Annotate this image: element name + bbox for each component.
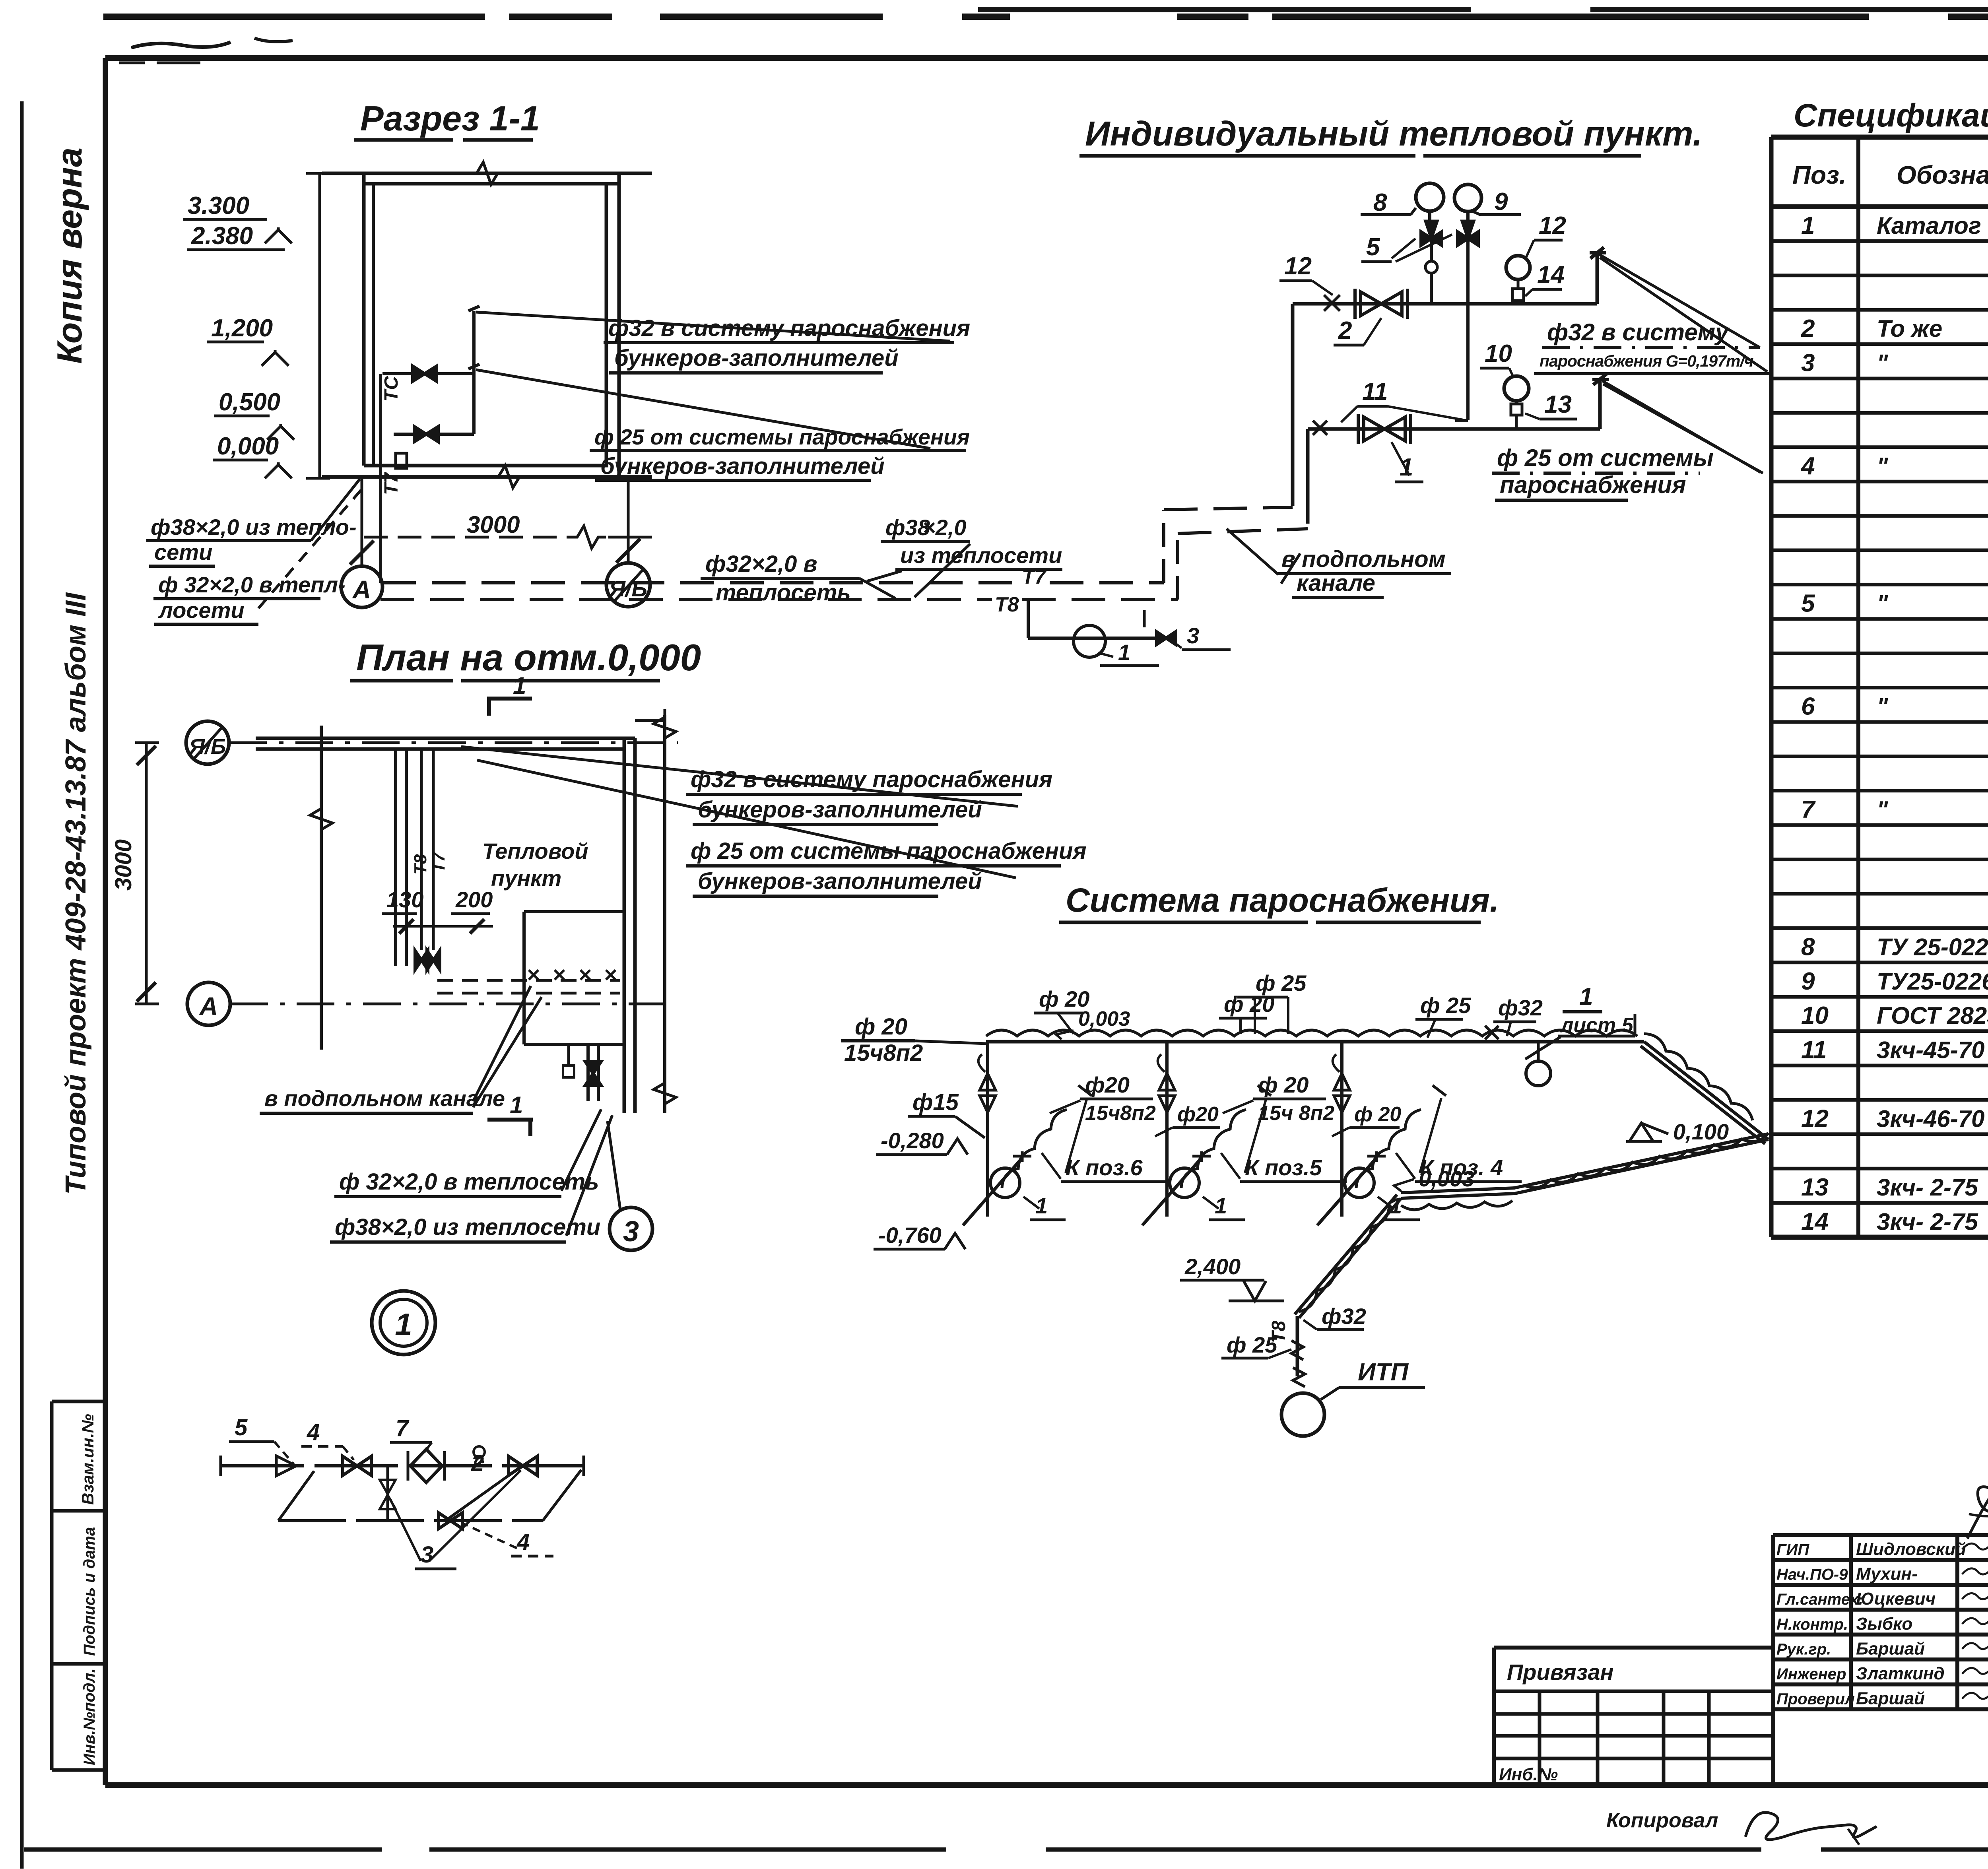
svg-text:Система пароснабжения.: Система пароснабжения. [1066,881,1499,919]
svg-text:Т8: Т8 [995,593,1019,616]
svg-text:2.380: 2.380 [191,222,253,250]
svg-text:К поз.6: К поз.6 [1066,1155,1143,1180]
svg-text:1,200: 1,200 [211,314,273,342]
svg-text:5: 5 [1366,233,1380,261]
svg-text:Проверил: Проверил [1776,1690,1855,1708]
svg-text:бункеров-заполнителей: бункеров-заполнителей [614,345,899,371]
svg-text:лосети: лосети [158,598,245,623]
svg-text:Подпись и дата: Подпись и дата [81,1527,98,1656]
svg-text:ТУ25-0226-74: ТУ25-0226-74 [1877,968,1988,995]
svg-text:Поз.: Поз. [1792,161,1846,189]
svg-text:5: 5 [1801,590,1815,617]
svg-text:3: 3 [1801,349,1815,377]
svg-text:бункеров-заполнителей: бункеров-заполнителей [698,868,982,894]
svg-text:А: А [199,992,218,1021]
svg-text:×2,0: ×2,0 [922,515,967,540]
svg-text:Инв.№подл.: Инв.№подл. [81,1668,98,1765]
svg-text:ф 20: ф 20 [1224,992,1274,1017]
svg-text:бункеров-заполнителей: бункеров-заполнителей [698,797,982,823]
svg-text:Т7: Т7 [1022,565,1047,588]
svg-text:сети: сети [154,540,212,565]
svg-text:Я/Б: Я/Б [608,576,647,601]
svg-text:0,000: 0,000 [217,433,279,460]
svg-text:Гл.сантех.: Гл.сантех. [1776,1591,1863,1608]
svg-text:1: 1 [1579,983,1593,1011]
svg-text:ф32: ф32 [1498,995,1543,1020]
svg-text:Привязан: Привязан [1507,1659,1613,1685]
svg-text:3кч- 2-75: 3кч- 2-75 [1877,1174,1978,1201]
svg-text:Златкинд: Златкинд [1856,1664,1945,1683]
svg-text:Баршай: Баршай [1856,1639,1925,1658]
svg-text:0,100: 0,100 [1673,1119,1729,1144]
svg-text:ф38×2,0 из теплосети: ф38×2,0 из теплосети [335,1214,600,1240]
svg-text:ТС: ТС [381,376,402,402]
svg-text:ИТП: ИТП [1358,1359,1409,1386]
svg-text:пароснабжения: пароснабжения [1500,472,1686,498]
svg-text:13: 13 [1544,391,1572,418]
svg-text:ф 25: ф 25 [1420,993,1471,1018]
svg-text:ф 25 от системы пароснабжения: ф 25 от системы пароснабжения [594,425,970,449]
svg-text:Инженер: Инженер [1776,1665,1846,1683]
svg-text:6: 6 [1801,693,1815,720]
svg-text:Разрез 1-1: Разрез 1-1 [360,99,540,138]
svg-text:3000: 3000 [467,511,520,538]
svg-text:2: 2 [1338,317,1352,344]
svg-text:15ч 8п2: 15ч 8п2 [1258,1102,1334,1125]
svg-text:1: 1 [513,672,526,699]
svg-text:12: 12 [1801,1105,1829,1132]
svg-text:14: 14 [1537,261,1565,289]
svg-text:ф32: ф32 [1322,1304,1366,1329]
svg-text:0,003: 0,003 [1078,1007,1130,1031]
svg-text:Т7: Т7 [429,851,448,873]
svg-text:ГОСТ 2823-73*Е: ГОСТ 2823-73*Е [1877,1002,1988,1029]
svg-text:Рук.гр.: Рук.гр. [1776,1640,1831,1658]
svg-text:ф32×2,0 в: ф32×2,0 в [705,551,817,577]
svg-text:ф 20: ф 20 [855,1014,907,1040]
svg-text:ф38×2,0 из тепло-: ф38×2,0 из тепло- [151,514,357,540]
svg-text:-0,280: -0,280 [881,1128,944,1153]
svg-text:4: 4 [307,1419,320,1445]
svg-text:130: 130 [386,887,423,912]
svg-text:15ч8п2: 15ч8п2 [1085,1102,1156,1125]
svg-text:12: 12 [1539,212,1566,239]
svg-text:ТУ 25-0226-74: ТУ 25-0226-74 [1877,934,1988,960]
svg-text:": " [1877,453,1889,479]
svg-text:1: 1 [395,1307,412,1342]
svg-text:11: 11 [1801,1036,1827,1064]
svg-text:10: 10 [1485,340,1512,367]
svg-text:ф32 в систему: ф32 в систему [1547,319,1730,345]
svg-text:пункт: пункт [491,866,561,891]
svg-text:14: 14 [1801,1208,1829,1236]
svg-text:": " [1877,693,1889,720]
svg-text:в подпольном канале: в подпольном канале [264,1086,505,1111]
svg-text:Т7: Т7 [381,472,402,495]
svg-text:2: 2 [1801,315,1815,342]
svg-text:Копировал: Копировал [1606,1809,1718,1832]
svg-text:Копия верна: Копия верна [50,148,89,364]
svg-text:": " [1877,590,1889,617]
svg-text:Индивидуальный тепловой пункт.: Индивидуальный тепловой пункт. [1085,115,1703,153]
svg-text:Типовой проект 409-28-43.13.: Типовой проект 409-28-43.13.87 альбом II… [60,592,92,1195]
svg-text:3кч-45-70: 3кч-45-70 [1877,1037,1984,1064]
svg-text:пароснабжения G=0,197т/ч: пароснабжения G=0,197т/ч [1540,352,1754,370]
svg-text:3.300: 3.300 [188,192,249,219]
svg-text:Спецификация: Спецификация [1794,97,1988,134]
svg-text:7: 7 [396,1415,410,1441]
svg-text:Я/Б: Я/Б [188,735,226,759]
svg-text:ф 25 от системы пароснабжения: ф 25 от системы пароснабжения [691,838,1087,864]
svg-text:Обозначение: Обозначение [1897,161,1988,189]
svg-text:0,003: 0,003 [1419,1166,1474,1191]
svg-text:лист 5: лист 5 [1559,1014,1634,1037]
svg-text:200: 200 [455,887,493,912]
svg-text:Мухин-: Мухин- [1856,1564,1918,1584]
svg-text:1: 1 [1118,640,1130,665]
svg-text:8: 8 [1373,189,1387,216]
svg-text:4: 4 [516,1529,530,1555]
svg-text:ф32 в систему пароснабжения: ф32 в систему пароснабжения [691,767,1052,792]
svg-text:ф 32×2,0 в теплосеть: ф 32×2,0 в теплосеть [339,1169,599,1195]
svg-text:3: 3 [421,1542,433,1568]
svg-text:3: 3 [1187,623,1199,648]
svg-text:3кч-46-70: 3кч-46-70 [1877,1105,1984,1132]
svg-text:ф20: ф20 [1085,1072,1130,1097]
svg-text:Инб.№: Инб.№ [1499,1765,1558,1784]
svg-text:3: 3 [623,1216,639,1248]
svg-text:5: 5 [235,1415,248,1440]
svg-text:ф 32×2,0 в тепл-: ф 32×2,0 в тепл- [158,572,346,597]
svg-text:7: 7 [1801,796,1816,823]
svg-text:ф 20: ф 20 [1258,1072,1309,1097]
svg-text:3000: 3000 [111,839,136,891]
svg-text:11: 11 [1362,378,1388,406]
svg-text:ф 20: ф 20 [1354,1103,1401,1126]
svg-text:Зыбко: Зыбко [1856,1614,1912,1634]
svg-text:2,400: 2,400 [1184,1254,1241,1279]
svg-text:Шидловский: Шидловский [1856,1539,1966,1559]
svg-text:15ч8п2: 15ч8п2 [844,1040,923,1066]
svg-text:Каталог ЦКБА: Каталог ЦКБА [1877,212,1988,239]
svg-text:3кч- 2-75: 3кч- 2-75 [1877,1209,1978,1235]
svg-text:ф 25 от системы: ф 25 от системы [1497,444,1714,471]
svg-text:13: 13 [1801,1174,1829,1201]
svg-text:из теплосети: из теплосети [900,543,1062,568]
svg-text:Т8: Т8 [411,854,430,875]
svg-text:": " [1877,350,1889,377]
svg-text:": " [1877,796,1889,823]
svg-text:в подпольном: в подпольном [1281,546,1446,572]
svg-text:Баршай: Баршай [1856,1689,1925,1708]
svg-text:9: 9 [1801,968,1815,995]
svg-text:Т8: Т8 [1268,1321,1289,1343]
svg-text:-0,760: -0,760 [878,1223,942,1248]
svg-text:А: А [352,575,371,604]
svg-text:План на отм.0,000: План на отм.0,000 [356,637,701,678]
svg-text:ф32 в систему пароснабжения: ф32 в систему пароснабжения [608,315,970,341]
svg-text:Тепловой: Тепловой [482,838,588,864]
svg-text:ГИП: ГИП [1776,1541,1809,1558]
svg-text:Н.контр.: Н.контр. [1776,1616,1848,1633]
svg-text:1: 1 [510,1092,523,1118]
svg-text:Нач.ПО-9: Нач.ПО-9 [1776,1566,1848,1584]
svg-text:Юцкевич: Юцкевич [1856,1589,1936,1609]
svg-text:12: 12 [1284,252,1312,280]
svg-text:ф15: ф15 [912,1089,959,1115]
svg-text:10: 10 [1801,1002,1829,1029]
svg-text:4: 4 [1800,452,1815,480]
svg-text:1: 1 [1801,212,1815,239]
svg-text:канале: канале [1297,570,1375,596]
svg-text:9: 9 [1494,188,1508,215]
svg-text:Взам.ин.№: Взам.ин.№ [78,1414,97,1505]
svg-text:К поз.5: К поз.5 [1245,1155,1322,1180]
svg-text:То же: То же [1877,315,1942,342]
svg-text:0,500: 0,500 [219,388,280,416]
svg-text:бункеров-заполнителей: бункеров-заполнителей [600,453,885,479]
svg-text:8: 8 [1801,933,1815,961]
svg-text:ф20: ф20 [1177,1103,1219,1126]
